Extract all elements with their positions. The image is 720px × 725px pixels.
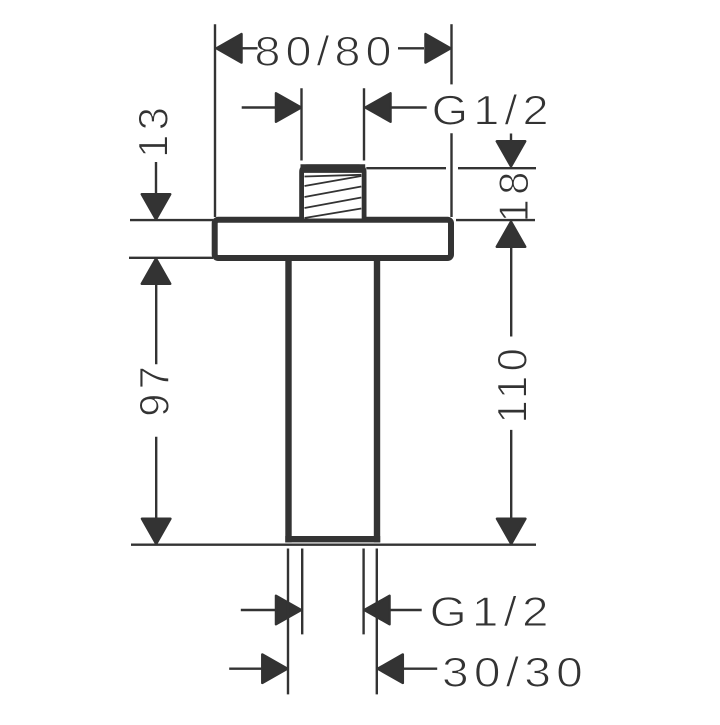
- component: flange plate: [215, 220, 451, 258]
- wire: left extension line of 80/80 down to flange: [214, 24, 216, 217]
- component: pipe right wall: [374, 258, 380, 542]
- svg-text:G1/2: G1/2: [430, 588, 554, 635]
- component: threaded stub body: [302, 167, 365, 219]
- arrow left of top G1/2 pointing right: [276, 93, 301, 121]
- svg-text:97: 97: [131, 362, 178, 417]
- component: pipe left wall: [285, 258, 291, 542]
- wire: G1/2 top left leader: [242, 106, 277, 108]
- wire: 80/80 right leader: [398, 47, 424, 49]
- wire: pipe bottom long extension line: [131, 544, 536, 546]
- wire: outer extension line right below pipe: [376, 549, 378, 695]
- wire: right extension line of 80/80 upper segment: [450, 24, 452, 84]
- svg-text:13: 13: [130, 103, 177, 158]
- arrow 30/30 right pointing left: [378, 655, 403, 683]
- dimension 18 right: [490, 134, 537, 247]
- wire: 97 upper stem: [155, 284, 157, 364]
- wire: 110 lower stem: [510, 430, 512, 518]
- wire: 97 lower stem: [155, 437, 157, 521]
- dimension 13 left: [130, 103, 177, 284]
- svg-text:30/30: 30/30: [442, 648, 588, 695]
- thread hatch line 3: [305, 198, 362, 209]
- wire: 110 upper stem: [510, 247, 512, 337]
- arrow 97 pointing down: [142, 519, 170, 544]
- wire: extension line right of thread stub: [363, 88, 365, 160]
- wire: stub top right extension line segment a: [366, 167, 446, 169]
- wire: bottom G1/2 left leader: [241, 609, 277, 611]
- thread hatch line 4: [305, 209, 362, 219]
- wire: 13 stem: [155, 162, 157, 195]
- arrow 13 lower pointing up: [142, 259, 170, 284]
- wire: right extension line of 80/80 lower segment: [450, 133, 452, 217]
- wire: 80/80 left leader: [242, 47, 258, 49]
- arrow 110 pointing down: [497, 519, 525, 544]
- thread hatch line 1: [305, 176, 362, 186]
- svg-text:80/80: 80/80: [255, 28, 397, 75]
- dimension G1/2 bottom: [241, 549, 554, 635]
- wire: 18 upper stem: [510, 134, 512, 143]
- arrow left of 80/80: [217, 34, 242, 62]
- dimension G1/2 top: [242, 86, 554, 160]
- dimension 30/30 bottom: [229, 549, 588, 696]
- wire: G1/2 top right leader: [391, 106, 427, 108]
- arrow 13 pointing down: [142, 194, 170, 219]
- wire: 30/30 right leader: [403, 668, 437, 670]
- wire: stub top right extension line segment b: [458, 167, 536, 169]
- wire: flange bottom left extension line: [129, 257, 213, 259]
- arrow right of top G1/2 pointing left: [366, 93, 391, 121]
- dimension 110 right: [489, 247, 536, 544]
- component: pipe bottom bar: [285, 536, 380, 542]
- wire: bottom G1/2 right leader: [390, 609, 422, 611]
- arrow 30/30 left pointing right: [262, 655, 287, 683]
- wire: flange top left extension line: [130, 219, 213, 221]
- wire: flange top right extension line: [456, 219, 535, 221]
- svg-text:18: 18: [490, 167, 537, 222]
- wire: 30/30 left leader: [229, 668, 263, 670]
- arrow bottom G1/2 left pointing right: [276, 596, 301, 624]
- component: stub top thick bar: [301, 164, 366, 173]
- wire: extension line left of thread stub: [300, 88, 302, 160]
- wire: inner extension line right below pipe: [362, 549, 364, 635]
- dimension 97 left: [131, 284, 178, 544]
- arrow 18 lower pointing up (also top arrow of 110): [497, 222, 525, 247]
- svg-text:110: 110: [489, 344, 536, 424]
- arrow bottom G1/2 right pointing left: [365, 596, 390, 624]
- wire: inner extension line left below pipe: [301, 549, 303, 635]
- arrow right of 80/80: [426, 34, 451, 62]
- wire: outer extension line left below pipe: [287, 549, 289, 695]
- thread hatch line 2: [305, 187, 362, 198]
- dimension 80/80 top: [215, 24, 452, 217]
- svg-text:G1/2: G1/2: [432, 86, 554, 133]
- thread hatch line 0: [305, 175, 362, 177]
- arrow 18 pointing down: [497, 141, 525, 166]
